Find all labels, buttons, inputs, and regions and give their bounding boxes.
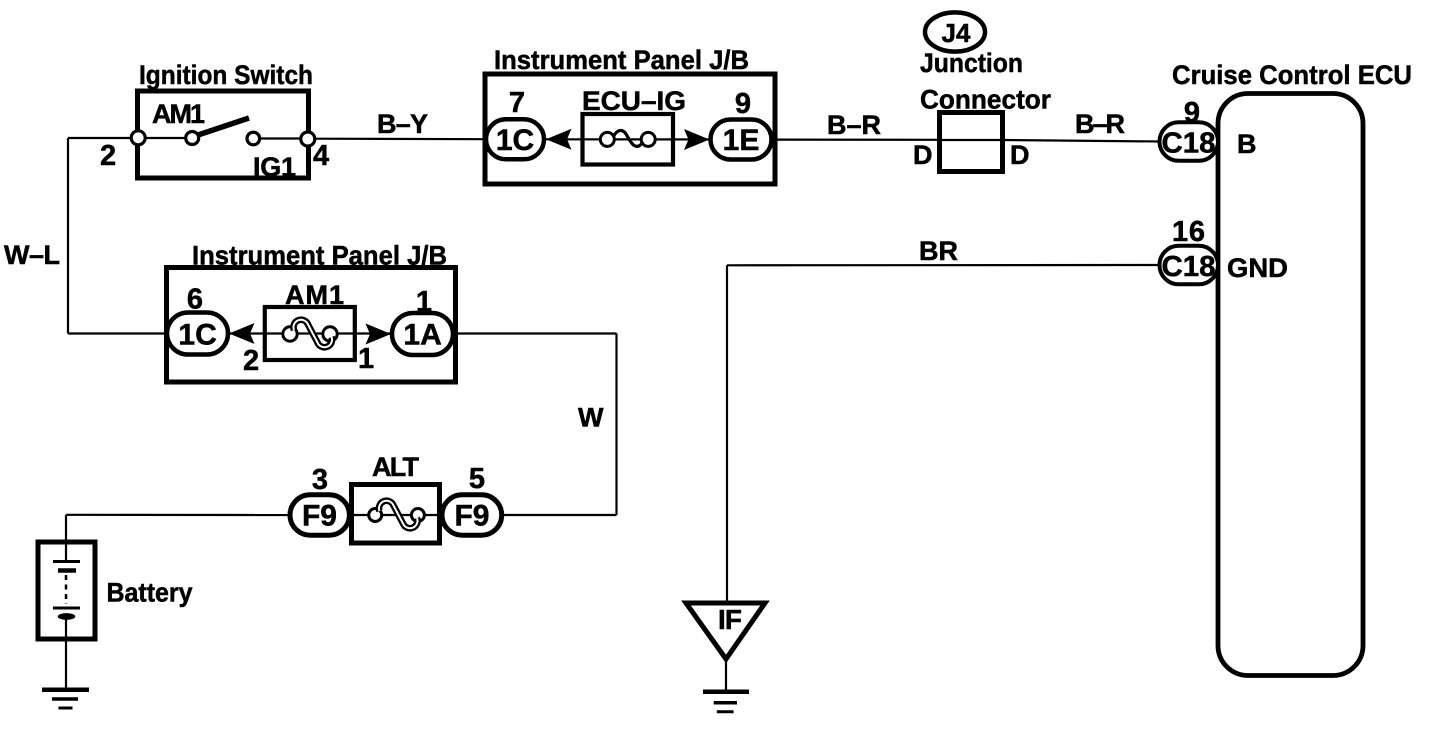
fuse ALT element: [352, 514, 440, 516]
wire B-R from 1E to junction connector: [772, 139, 941, 141]
connector C18 oval pin 9: [1160, 122, 1219, 161]
wire BR horizontal: [727, 264, 1161, 266]
svg-text:BR: BR: [919, 236, 958, 266]
battery plates: [53, 560, 80, 563]
battery bottom wire: [65, 619, 67, 690]
svg-text:W: W: [578, 403, 604, 433]
svg-text:Instrument Panel J/B: Instrument Panel J/B: [494, 45, 749, 75]
IF ground stub: [725, 659, 727, 692]
wire B-R from junction to C18: [1003, 140, 1161, 142]
wire BR vertical to IF ground: [726, 265, 728, 604]
svg-text:9: 9: [1184, 97, 1200, 129]
instrument panel J/B box (top): [485, 74, 775, 184]
svg-text:1: 1: [416, 286, 432, 318]
svg-text:7: 7: [509, 87, 525, 119]
svg-text:B: B: [1237, 129, 1257, 159]
wire from W-L node to ignition switch terminal 2: [68, 137, 134, 139]
ignition switch box: [138, 91, 309, 178]
svg-text:ECU–IG: ECU–IG: [582, 86, 686, 116]
ground IF triangle: [686, 603, 765, 659]
connector F9 oval (left): [290, 495, 349, 535]
svg-text:1E: 1E: [723, 124, 760, 157]
arrowhead left at 1C (middle): [229, 323, 255, 344]
arrowhead right at 1E: [684, 129, 710, 150]
Cruise Control ECU box: [1218, 94, 1363, 676]
junction connector square: [940, 113, 1003, 172]
svg-text:2: 2: [100, 140, 116, 172]
wire B-Y from terminal 4 to J/B: [314, 138, 487, 141]
arrowhead right at 1A: [366, 324, 392, 345]
wire W vertical: [615, 334, 617, 516]
svg-text:D: D: [913, 140, 933, 170]
battery top wire: [65, 515, 67, 561]
svg-text:9: 9: [735, 88, 751, 120]
svg-text:W–L: W–L: [4, 240, 60, 270]
IF ground bars: [703, 690, 749, 695]
connector F9 oval (right): [442, 495, 502, 535]
wire from battery to F9: [66, 514, 292, 516]
svg-text:3: 3: [312, 464, 328, 496]
terminal 2 circle: [131, 131, 145, 145]
svg-text:4: 4: [313, 140, 329, 172]
svg-text:Ignition Switch: Ignition Switch: [139, 60, 313, 90]
svg-text:Junction: Junction: [920, 48, 1023, 78]
connector 1E oval (top J/B): [711, 120, 772, 160]
wire inside switch from terminal 2 to pivot: [138, 137, 192, 139]
svg-text:F9: F9: [302, 500, 337, 533]
svg-text:B–R: B–R: [827, 110, 881, 140]
wire through junction square: [940, 139, 1002, 141]
svg-text:1C: 1C: [496, 124, 534, 157]
svg-text:2: 2: [243, 345, 259, 377]
battery box: [38, 542, 95, 639]
svg-text:IG1: IG1: [253, 152, 296, 182]
svg-text:B–Y: B–Y: [377, 109, 428, 139]
svg-text:C18: C18: [1162, 128, 1216, 160]
switch contact circle: [247, 132, 260, 145]
svg-text:ALT: ALT: [372, 452, 420, 482]
fuse AM1 box: [265, 307, 355, 360]
svg-text:1C: 1C: [178, 319, 216, 352]
instrument panel J/B box (middle): [167, 268, 456, 383]
svg-text:Cruise Control ECU: Cruise Control ECU: [1172, 60, 1412, 90]
connector 1A oval (middle J/B): [392, 313, 453, 355]
svg-text:AM1: AM1: [152, 99, 205, 129]
connector C18 oval pin 16: [1160, 246, 1219, 284]
svg-text:16: 16: [1172, 216, 1205, 248]
svg-text:1: 1: [358, 343, 374, 375]
fuse ALT box: [352, 485, 440, 544]
fuse AM1 element: [283, 327, 297, 341]
wire W-L horizontal to 1C: [68, 332, 190, 334]
svg-text:AM1: AM1: [285, 280, 344, 310]
svg-text:B–R: B–R: [1075, 109, 1125, 139]
wire inside switch from contact to terminal 4: [253, 137, 308, 139]
svg-text:Battery: Battery: [107, 578, 193, 608]
fuse ECU-IG box: [583, 114, 674, 165]
switch pivot circle: [186, 132, 199, 145]
connector 1C oval (middle J/B): [167, 313, 228, 355]
fuse element circles and wave: [600, 132, 614, 146]
switch lever: [195, 118, 249, 136]
wire through middle J/B: [190, 332, 452, 334]
svg-text:1A: 1A: [403, 319, 441, 352]
battery ground bars: [42, 688, 89, 693]
svg-text:5: 5: [469, 463, 485, 495]
connector 1C oval (top J/B): [486, 119, 544, 159]
svg-text:GND: GND: [1227, 253, 1288, 283]
svg-text:D: D: [1010, 140, 1030, 170]
wire from 1A to corner: [452, 332, 617, 334]
svg-text:6: 6: [187, 284, 203, 316]
svg-text:C18: C18: [1162, 251, 1216, 283]
wire W-L vertical segment: [67, 138, 69, 334]
svg-text:F9: F9: [454, 500, 489, 533]
svg-text:J4: J4: [942, 18, 971, 48]
wire through top J/B: [487, 138, 772, 140]
wire from F9 right to corner: [500, 514, 617, 516]
svg-text:Instrument Panel J/B: Instrument Panel J/B: [192, 241, 447, 271]
J4 ellipse: [925, 12, 985, 51]
arrowhead left at 1C: [546, 129, 572, 150]
svg-text:IF: IF: [718, 604, 742, 635]
terminal 4 circle: [301, 132, 315, 146]
